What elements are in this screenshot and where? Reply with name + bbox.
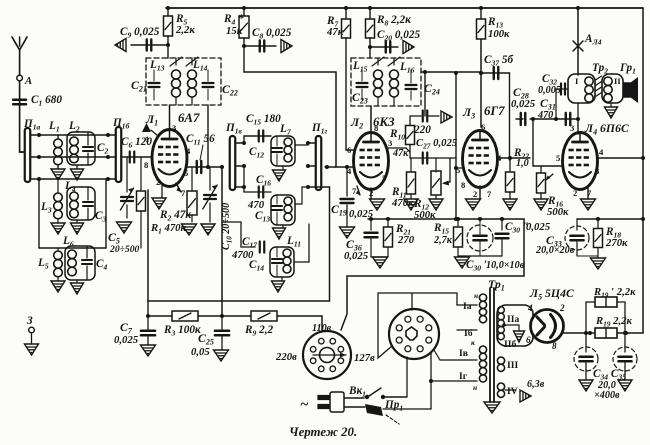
svg-text:8: 8 xyxy=(374,123,378,133)
svg-text:Iб: Iб xyxy=(464,328,473,339)
svg-text:4: 4 xyxy=(186,146,191,156)
svg-text:5: 5 xyxy=(184,168,188,178)
svg-text:Iа: Iа xyxy=(463,301,472,312)
svg-text:7: 7 xyxy=(181,188,186,198)
svg-text:2: 2 xyxy=(559,303,565,313)
svg-text:н: н xyxy=(474,291,478,300)
svg-text:Чертеж 20.: Чертеж 20. xyxy=(289,425,357,439)
svg-text:6А7: 6А7 xyxy=(178,111,200,125)
svg-text:6,3в: 6,3в xyxy=(527,379,545,390)
svg-text:0,005: 0,005 xyxy=(538,85,561,96)
svg-text:4: 4 xyxy=(527,303,533,313)
svg-text:3: 3 xyxy=(172,123,176,133)
svg-text:20÷500: 20÷500 xyxy=(109,244,140,255)
svg-text:8: 8 xyxy=(552,341,557,351)
svg-text:С8 0,025: С8 0,025 xyxy=(252,27,292,41)
svg-text:×400в: ×400в xyxy=(594,390,620,401)
svg-text:С15 180: С15 180 xyxy=(246,113,281,127)
svg-text:R19 ′ 2,2к: R19 ′ 2,2к xyxy=(593,286,636,300)
svg-text:0,025: 0,025 xyxy=(344,250,369,262)
svg-text:5: 5 xyxy=(382,173,386,183)
svg-text:0,025: 0,025 xyxy=(114,334,139,346)
svg-text:470: 470 xyxy=(537,110,553,121)
svg-text:0,025: 0,025 xyxy=(349,208,374,220)
svg-text:8: 8 xyxy=(144,160,148,170)
svg-text:2: 2 xyxy=(156,177,160,187)
svg-text:8: 8 xyxy=(461,180,465,190)
svg-text:20,0×20в: 20,0×20в xyxy=(535,245,575,256)
svg-text:4: 4 xyxy=(347,166,352,176)
svg-text:З: З xyxy=(26,315,33,327)
svg-text:47к: 47к xyxy=(326,26,344,38)
svg-text:Iг: Iг xyxy=(459,371,468,382)
svg-text:6: 6 xyxy=(347,145,352,155)
svg-text:220в: 220в xyxy=(275,351,297,363)
svg-text:1,0: 1,0 xyxy=(516,158,529,169)
svg-text:С11 56: С11 56 xyxy=(186,133,215,147)
svg-text:A: A xyxy=(24,75,32,87)
svg-text:7: 7 xyxy=(587,188,592,198)
svg-text:6Г7: 6Г7 xyxy=(484,104,505,118)
svg-text:Л5 5Ц4С: Л5 5Ц4С xyxy=(529,287,574,302)
svg-text:0,025: 0,025 xyxy=(526,221,551,233)
svg-text:2: 2 xyxy=(573,188,577,198)
svg-text:110в: 110в xyxy=(312,323,332,334)
svg-text:270к: 270к xyxy=(605,237,628,249)
svg-text:С9 0,025: С9 0,025 xyxy=(120,26,160,40)
svg-text:Iв: Iв xyxy=(459,348,468,359)
svg-text:220: 220 xyxy=(413,124,431,136)
svg-text:н: н xyxy=(473,383,477,392)
svg-text:10,0×10в: 10,0×10в xyxy=(486,260,525,271)
svg-text:С27 0,025: С27 0,025 xyxy=(416,137,458,151)
svg-text:5: 5 xyxy=(556,153,560,163)
svg-text:500к: 500к xyxy=(547,206,569,218)
svg-text:8: 8 xyxy=(595,166,599,176)
svg-text:7: 7 xyxy=(352,186,357,196)
svg-text:IV: IV xyxy=(507,386,518,397)
svg-text:к: к xyxy=(471,338,475,347)
svg-text:II: II xyxy=(614,76,621,86)
svg-text:2,7к: 2,7к xyxy=(433,235,453,246)
svg-text:270: 270 xyxy=(397,234,415,246)
svg-text:4: 4 xyxy=(497,153,502,163)
svg-text:2,2к: 2,2к xyxy=(175,24,195,36)
svg-text:1: 1 xyxy=(145,134,149,144)
svg-text:15к: 15к xyxy=(226,25,243,37)
svg-text:Л4 6П6С: Л4 6П6С xyxy=(584,122,629,137)
svg-text:IIа: IIа xyxy=(507,314,519,325)
svg-text:С37 5б: С37 5б xyxy=(484,54,514,68)
svg-text:III: III xyxy=(507,360,518,371)
svg-text:47к: 47к xyxy=(392,148,409,159)
svg-text:100к: 100к xyxy=(488,28,510,40)
svg-text:6: 6 xyxy=(481,122,486,132)
svg-text:470к: 470к xyxy=(391,197,414,209)
svg-text:2: 2 xyxy=(473,189,477,199)
svg-text:2: 2 xyxy=(369,188,373,198)
svg-text:127в: 127в xyxy=(354,352,375,364)
svg-text:4: 4 xyxy=(599,147,604,157)
svg-text:R19 2,2к: R19 2,2к xyxy=(595,315,632,329)
svg-text:R2 47к: R2 47к xyxy=(159,209,191,223)
svg-text:5: 5 xyxy=(456,165,460,175)
svg-text:0,05: 0,05 xyxy=(191,346,210,358)
svg-text:R3 100к: R3 100к xyxy=(163,324,201,338)
svg-text:С1 680: С1 680 xyxy=(31,94,62,108)
svg-text:0,025: 0,025 xyxy=(511,98,536,110)
svg-text:7: 7 xyxy=(487,189,492,199)
svg-text:IIб: IIб xyxy=(504,339,516,350)
svg-text:R9 2,2: R9 2,2 xyxy=(244,324,274,338)
svg-text:С20 0,025: С20 0,025 xyxy=(377,29,421,43)
svg-text:R1 470к: R1 470к xyxy=(150,222,187,236)
svg-text:3: 3 xyxy=(570,123,574,133)
svg-text:500к: 500к xyxy=(414,209,436,221)
svg-text:6: 6 xyxy=(526,335,531,345)
svg-text:R8 2,2к: R8 2,2к xyxy=(376,14,411,28)
svg-text:~: ~ xyxy=(300,397,309,413)
